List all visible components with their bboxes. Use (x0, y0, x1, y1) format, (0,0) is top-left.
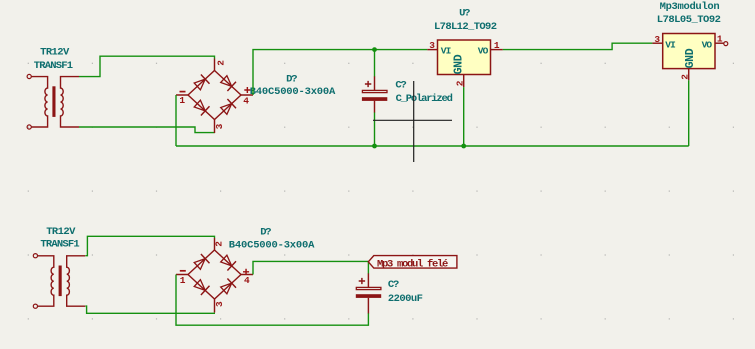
editor cursor crosshair (373, 81, 452, 162)
transformer TR1 primary winding (31, 77, 47, 127)
svg-text:3: 3 (429, 40, 435, 51)
bridge D2 pin stubs 1,2,3,4 (176, 238, 253, 313)
capacitor C1 (polarized) (374, 76, 376, 112)
svg-text:2: 2 (455, 80, 466, 86)
wire bridge D2 pin 4 up to Mp3 label / C2 (253, 261, 368, 274)
svg-text:GND: GND (684, 48, 697, 68)
svg-text:3: 3 (214, 123, 225, 129)
bridge D1 minus mark (180, 91, 186, 93)
bridge D1 diode upper-right (221, 76, 232, 87)
transformer TR1 left pin circles (27, 74, 31, 78)
capacitor C2 (2200uF polarized) (367, 273, 369, 313)
bridge D2 minus mark (180, 270, 186, 272)
op-amp/regulator U1 body (438, 40, 491, 75)
bridge D2 diode upper-left (194, 259, 205, 270)
svg-text:U?: U? (459, 7, 470, 19)
svg-text:C?: C? (395, 80, 406, 92)
svg-text:Mp3 modul felé: Mp3 modul felé (377, 258, 448, 270)
svg-text:VO: VO (478, 45, 489, 56)
junction node at C1 top / positive rail (372, 47, 377, 52)
svg-text:Mp3modulon: Mp3modulon (660, 1, 720, 13)
wire U2 GND down and left along ground rail (688, 80, 690, 146)
wire C1 bottom lead (374, 112, 376, 146)
wire TR1 secondary top to bridge D1 pin 2 (79, 56, 215, 76)
svg-text:D?: D? (286, 74, 297, 86)
bridge D2 diode upper-right (221, 255, 232, 266)
wire TR2 secondary top to bridge D2 pin 2 (85, 236, 214, 255)
svg-text:3: 3 (214, 301, 225, 307)
svg-text:VO: VO (702, 40, 713, 51)
bridge rectifier D2 diamond body (188, 250, 241, 299)
svg-text:1: 1 (494, 40, 500, 51)
U2 pin 2 (GND) (688, 69, 690, 81)
svg-text:3: 3 (654, 34, 660, 45)
bridge D2 plus mark (243, 269, 249, 275)
bridge D2 diode lower-left (194, 280, 205, 291)
U2 pin 1 (VO) open ended (715, 42, 724, 44)
wire C1 top lead (374, 50, 376, 77)
transformer TR2 primary winding (38, 256, 54, 306)
svg-text:4: 4 (244, 275, 250, 286)
bridge D1 plus mark (244, 87, 250, 93)
svg-text:B40C5000-3x00A: B40C5000-3x00A (250, 86, 336, 98)
capacitor C2 plus mark (359, 278, 365, 284)
svg-text:D?: D? (260, 227, 271, 239)
bridge D1 diode lower-right (221, 104, 232, 115)
svg-text:2: 2 (213, 241, 224, 247)
transformer TR2 secondary winding (67, 256, 86, 306)
svg-text:2: 2 (679, 74, 690, 80)
svg-text:TR12V: TR12V (40, 46, 70, 58)
U1 pin 2 (GND) (463, 75, 465, 88)
wire label corner down to C2 top (367, 261, 369, 273)
U1 pin 3 (VI) (427, 49, 437, 51)
junction node at C1 bottom / ground rail (372, 144, 377, 149)
regulator U2 body (663, 34, 715, 69)
svg-text:C_Polarized: C_Polarized (396, 93, 453, 105)
svg-text:TRANSF1: TRANSF1 (34, 60, 73, 72)
transformer TR2 core (59, 266, 62, 297)
svg-text:VI: VI (665, 40, 675, 51)
global label Mp3 modul fele (368, 256, 457, 269)
wire TR1 secondary bottom to bridge D1 pin 3 (79, 127, 215, 133)
svg-text:VI: VI (441, 45, 451, 56)
bridge D2 diode lower-right (221, 283, 232, 294)
wire bridge D1 pin 1 down to ground rail (175, 95, 177, 146)
svg-text:4: 4 (243, 96, 249, 107)
svg-text:2: 2 (215, 60, 226, 66)
svg-text:1: 1 (717, 34, 723, 45)
svg-text:1: 1 (179, 95, 185, 106)
svg-text:2200uF: 2200uF (388, 293, 423, 305)
transformer TR1 secondary winding (61, 77, 80, 127)
bridge D1 diode lower-left (194, 100, 205, 111)
bridge rectifier D1 diamond body (188, 71, 241, 120)
junction node at U1 GND / ground rail (461, 144, 466, 149)
transformer TR2 left pin circles (33, 254, 37, 258)
svg-text:GND: GND (452, 54, 465, 74)
bridge D1 diode upper-left (194, 79, 205, 90)
U1 pin 1 (VO) (491, 49, 503, 51)
bridge D1 pin stubs 1,2,3,4 (176, 59, 253, 134)
svg-text:L78L05_TO92: L78L05_TO92 (657, 14, 721, 26)
wire U1 VO to U2 VI with jog (503, 43, 653, 49)
svg-text:C?: C? (388, 279, 399, 291)
svg-text:1: 1 (180, 275, 186, 286)
svg-text:L78L12_TO92: L78L12_TO92 (434, 21, 497, 33)
wire ground rail of top circuit (176, 145, 689, 147)
svg-text:B40C5000-3x00A: B40C5000-3x00A (229, 240, 315, 252)
wire bridge D2 pin 1 down to bottom rail (176, 275, 368, 326)
U2 pin 3 (VI) (652, 42, 662, 44)
wire U1 GND down to ground rail (463, 87, 465, 146)
capacitor C1 plus mark (365, 81, 371, 87)
svg-text:TR12V: TR12V (46, 226, 76, 238)
transformer TR1 core (52, 86, 55, 117)
wire bridge D1 pin 4 up and right to U1 VI (positive rail) (253, 50, 427, 95)
wire TR2 secondary bottom to bridge D2 pin 3 (85, 306, 215, 313)
svg-text:TRANSF1: TRANSF1 (40, 239, 79, 251)
